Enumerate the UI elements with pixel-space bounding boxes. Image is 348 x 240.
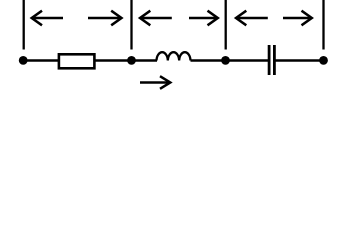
capacitor C left plate	[268, 45, 271, 75]
wire node3 to capacitor	[226, 59, 269, 61]
wire resistor to node2	[96, 59, 132, 61]
dimension arrow left (section 2)	[140, 11, 172, 26]
section boundary tick line 2	[130, 0, 132, 50]
section boundary tick line 4	[322, 0, 324, 50]
node 1 junction dot	[19, 56, 28, 65]
section boundary tick line 3	[225, 0, 227, 50]
wire capacitor to node4	[276, 59, 324, 61]
node 4 junction dot	[319, 56, 328, 65]
node 2 junction dot	[127, 56, 136, 65]
dimension arrow right (section 3)	[283, 11, 312, 26]
current direction arrow below inductor	[140, 76, 170, 89]
node 3 junction dot	[221, 56, 230, 65]
dimension arrow right (section 2)	[189, 11, 218, 26]
dimension arrow right (section 1)	[88, 11, 122, 26]
inductor L	[157, 52, 191, 60]
wire inductor to node3	[191, 59, 226, 61]
capacitor C right plate	[273, 45, 276, 75]
dimension arrow left (section 1)	[32, 11, 63, 26]
wire node2 to inductor	[132, 59, 158, 61]
section boundary tick line 1	[23, 0, 25, 50]
resistor R	[59, 54, 95, 68]
dimension arrow left (section 3)	[236, 11, 268, 26]
wire node1 to resistor	[24, 59, 59, 61]
